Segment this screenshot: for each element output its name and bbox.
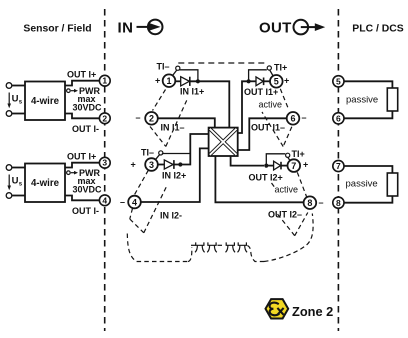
svg-text:7: 7 [336, 161, 341, 171]
module outline dashes right side [262, 89, 308, 236]
wire supply bottom (ch1) [12, 113, 25, 115]
svg-text:5: 5 [336, 76, 341, 86]
supply terminal bottom (ch1) [6, 111, 12, 117]
svg-text:IN I2+: IN I2+ [162, 170, 186, 180]
wire D3 to terminal 5 [264, 80, 270, 82]
svg-text:TI–: TI– [141, 147, 154, 157]
terminal 2 (module) [145, 112, 158, 125]
wire block to terminal 4 (ch2) [65, 196, 99, 201]
svg-text:4-wire: 4-wire [31, 178, 60, 189]
wire D4 to terminal 7 [281, 165, 287, 167]
svg-text:IN I2-: IN I2- [160, 210, 182, 220]
svg-text:PLC / DCS: PLC / DCS [352, 24, 403, 35]
svg-text:OUT I+: OUT I+ [67, 70, 96, 80]
DIN rail bus connector forks [195, 242, 247, 252]
svg-text:TI+: TI+ [274, 63, 287, 73]
svg-text:+: + [131, 159, 136, 169]
wire terminal 2 to isolation block [158, 118, 215, 127]
svg-text:7: 7 [291, 161, 296, 171]
svg-text:passive: passive [346, 179, 378, 190]
isolation block U1 (crossed square) [209, 128, 238, 156]
svg-text:3: 3 [149, 160, 154, 170]
svg-text:OUT I2–: OUT I2– [268, 210, 302, 220]
zone separator left (dashed) [104, 9, 106, 331]
PWR tap symbol (ch1) [67, 89, 71, 93]
junction OUT I2+ [264, 164, 268, 168]
terminal 2 (field) [99, 113, 110, 124]
resistor load ch2 [387, 173, 397, 196]
svg-text:5: 5 [274, 77, 279, 87]
wire test socket TI- (ch2) [162, 153, 191, 155]
transmitter block 4-wire (ch2) [25, 164, 65, 203]
wire test socket TI+ (ch1) [249, 70, 267, 82]
terminal 3 (field) [99, 157, 110, 168]
svg-text:30VDC: 30VDC [72, 102, 102, 112]
supply terminal top (ch1) [6, 83, 12, 89]
svg-text:–: – [302, 113, 307, 123]
terminal 6 (module) [287, 112, 300, 125]
resistor load ch1 [387, 88, 397, 111]
wire test socket TI- (ch1) [179, 70, 198, 82]
svg-text:8: 8 [307, 198, 312, 208]
terminal 4 (field) [99, 195, 110, 206]
terminal 3 (module) [145, 158, 158, 171]
svg-text:8: 8 [336, 198, 341, 208]
PWR tap symbol (ch2) [67, 171, 71, 175]
svg-text:6: 6 [290, 114, 295, 124]
svg-text:+: + [155, 76, 160, 86]
module outline top (dashed) [178, 62, 267, 64]
transmitter block 4-wire (ch1) [25, 82, 65, 121]
Ex marking [266, 299, 289, 318]
wire junction to diode D3 [249, 80, 256, 82]
svg-text:4: 4 [102, 195, 107, 205]
diode D2 [164, 160, 173, 169]
load loop ch2 [344, 166, 392, 173]
terminal 7 (module) [288, 159, 301, 172]
svg-text:U: U [12, 176, 19, 187]
svg-text:4-wire: 4-wire [31, 96, 60, 107]
supply terminal top (ch2) [6, 165, 12, 171]
svg-text:OUT: OUT [259, 19, 292, 36]
svg-text:2: 2 [102, 113, 107, 123]
wire supply bottom (ch2) [12, 195, 25, 197]
arrow Us down (ch1) [8, 93, 10, 105]
supply terminal bottom (ch2) [6, 193, 12, 199]
svg-text:OUT I2+: OUT I2+ [249, 172, 283, 182]
test socket TI+ (ch1) [267, 66, 271, 70]
zone separator right (dashed) [337, 9, 339, 331]
terminal 5 (PLC) [333, 76, 344, 87]
svg-text:–: – [319, 198, 324, 208]
svg-text:+: + [303, 160, 308, 170]
test socket TI- (ch1) [172, 70, 177, 76]
wire D1 to isolation block [190, 81, 229, 127]
svg-text:IN I1–: IN I1– [161, 122, 185, 132]
svg-text:IN: IN [118, 19, 134, 36]
svg-text:passive: passive [346, 95, 378, 106]
diode D4 [274, 161, 281, 170]
wire isolation block to terminal 6 [238, 118, 287, 150]
svg-text:Sensor / Field: Sensor / Field [23, 24, 91, 35]
wire block to terminal 3 (ch2) [65, 163, 99, 168]
wire isolation block to OUT I2+ junction [231, 156, 264, 166]
svg-text:OUT I-: OUT I- [72, 124, 99, 134]
junction IN I2+ [178, 162, 182, 166]
svg-text:IN I1+: IN I1+ [180, 87, 204, 97]
diode D3 [256, 77, 263, 86]
wire terminal 4 to isolation block [141, 148, 209, 202]
wire isolation block to terminal 8 [215, 156, 303, 202]
terminal 5 (module) [270, 75, 283, 88]
svg-text:OUT I+: OUT I+ [67, 152, 96, 162]
svg-text:2: 2 [149, 114, 154, 124]
svg-text:U: U [12, 94, 19, 105]
load loop ch1 [344, 81, 392, 88]
wire D2 to isolation block [174, 134, 209, 165]
svg-text:OUT I-: OUT I- [72, 206, 99, 216]
terminal 8 (PLC) [333, 197, 344, 208]
svg-text:+: + [284, 75, 289, 85]
svg-text:1: 1 [102, 76, 107, 86]
svg-text:active: active [259, 100, 283, 110]
svg-text:4: 4 [132, 197, 137, 207]
wire test socket TI+ (ch2) [266, 154, 285, 166]
module outline dashes left side [127, 90, 313, 262]
svg-text:–: – [120, 197, 125, 207]
svg-text:6: 6 [336, 113, 341, 123]
svg-text:30VDC: 30VDC [72, 184, 102, 194]
terminal 8 (module) [304, 196, 317, 209]
arrow Us down (ch2) [8, 175, 10, 187]
wire isolation block to OUT I1+ junction [238, 81, 249, 133]
wire junction to diode D4 [266, 165, 273, 167]
svg-text:TI+: TI+ [292, 149, 305, 159]
svg-text:active: active [275, 185, 299, 195]
junction OUT I1+ [247, 79, 251, 83]
terminal 1 (field) [99, 75, 110, 86]
diode D1 [181, 77, 190, 86]
svg-text:3: 3 [102, 158, 107, 168]
wire supply top (ch2) [12, 167, 25, 169]
terminal 1 (module) [163, 74, 176, 87]
wire supply top (ch1) [12, 85, 25, 87]
wire terminal 1 to diode D1 [175, 80, 180, 82]
terminal 6 (PLC) [333, 113, 344, 124]
terminal 4 (module) [128, 196, 141, 209]
wire block to terminal 1 (ch1) [65, 81, 99, 86]
test socket TI- (ch2) [155, 155, 160, 161]
svg-text:Zone 2: Zone 2 [292, 304, 333, 319]
svg-text:–: – [136, 113, 141, 123]
svg-text:OUT I1–: OUT I1– [251, 123, 285, 133]
junction IN I1+ [196, 79, 200, 83]
svg-text:OUT I1+: OUT I1+ [244, 87, 278, 97]
icon OUT (arrow out of circle) [294, 20, 317, 35]
svg-text:TI–: TI– [157, 61, 170, 71]
wire terminal 3 to diode D2 [158, 164, 164, 166]
svg-text:1: 1 [166, 76, 171, 86]
icon IN (arrow into circle) [137, 20, 163, 35]
test socket TI+ (ch2) [286, 153, 290, 157]
terminal 7 (PLC) [333, 160, 344, 171]
wire block to terminal 2 (ch1) [65, 114, 99, 119]
